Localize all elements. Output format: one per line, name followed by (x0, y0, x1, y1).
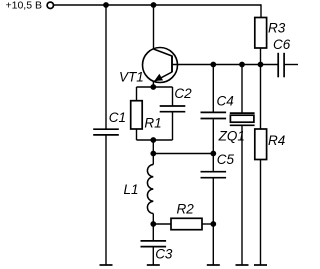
svg-text:+10,5 В: +10,5 В (6, 0, 43, 12)
svg-text:C4: C4 (217, 93, 234, 108)
svg-text:L1: L1 (124, 182, 139, 197)
svg-text:C3: C3 (155, 247, 173, 262)
svg-text:R3: R3 (268, 21, 286, 36)
svg-text:R2: R2 (177, 202, 195, 217)
svg-text:C6: C6 (273, 37, 291, 52)
svg-text:R4: R4 (268, 133, 285, 148)
svg-text:R1: R1 (144, 115, 161, 130)
svg-text:C2: C2 (174, 86, 192, 101)
svg-text:VT1: VT1 (119, 70, 144, 85)
svg-text:C5: C5 (217, 152, 235, 167)
svg-text:ZQ1: ZQ1 (218, 128, 245, 143)
svg-text:C1: C1 (109, 110, 126, 125)
